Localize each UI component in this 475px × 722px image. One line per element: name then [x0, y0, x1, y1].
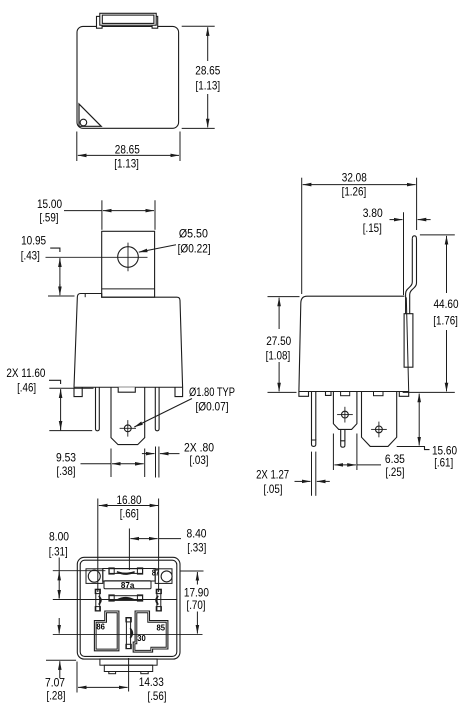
side view: rear coil pin below blade: [341, 429, 345, 447]
svg-text:[.56]: [.56]: [148, 689, 167, 703]
bottom view: slot 87: [109, 569, 142, 574]
dim 17.90: 30-centerline extension: [53, 634, 203, 636]
dim 8.40: dimension line with arrows: [130, 538, 157, 540]
dim 14.33: text2: [148, 689, 167, 703]
dim 15.60: text2: [434, 456, 453, 470]
dim 3.80: extension line: [403, 212, 405, 295]
dim 2X.80: text: [184, 441, 214, 455]
dim 7.07: bottom extension line: [46, 659, 76, 661]
dim 6.35: text: [385, 452, 405, 466]
dim 17.90: top extension line: [180, 570, 204, 572]
dim D5.50: text: [179, 227, 208, 241]
svg-text:[.61]: [.61]: [434, 456, 453, 470]
front view: blade hole circle: [124, 425, 131, 432]
dim 8.00: text: [49, 529, 69, 543]
bottom view: label 85: [157, 623, 166, 633]
svg-text:[.66]: [.66]: [120, 506, 139, 520]
dim 15.60: dimension line with arrows: [418, 394, 420, 446]
svg-text:10.95: 10.95: [21, 233, 46, 247]
bottom view: label 87: [152, 569, 160, 578]
bottom view: label plate 87a: [104, 581, 151, 589]
dim 6.35: right extension line: [356, 434, 358, 471]
dim 15.00: dimension line with arrows: [103, 210, 154, 212]
side view: bottom bump: [326, 392, 332, 396]
dim 14.33: left extension line: [76, 662, 78, 693]
side view: left foot: [299, 392, 309, 397]
dim 9.53: leader: [81, 463, 112, 465]
svg-text:87a: 87a: [121, 580, 135, 590]
side view: coil pin front: [312, 392, 316, 447]
dim 32.08: text: [342, 170, 367, 184]
bottom view: left post pocket: [86, 569, 103, 584]
dim 28.65 bottom: text [1.13]: [114, 156, 139, 170]
side view: mounting bracket strip: [406, 236, 417, 314]
side view: middle blade top notch: [341, 392, 350, 396]
svg-text:27.50: 27.50: [266, 334, 291, 348]
dim 7.07: up arrow: [59, 661, 61, 678]
top view: mounting bracket bar outer: [100, 13, 156, 25]
dim 2X1.27: extension lines: [312, 452, 316, 496]
bottom view: coil slot 85 end squares: [156, 589, 161, 611]
dim 44.60: text2: [433, 314, 458, 328]
dim 28.65 right: text 28.65: [195, 63, 220, 77]
bottom view: coil slot 85 pin lens: [156, 596, 158, 605]
dim 28.65 bottom: left extension line: [76, 132, 78, 162]
svg-text:Ø1.80 TYP: Ø1.80 TYP: [189, 385, 235, 399]
top view: mounting bracket bar inner: [102, 15, 154, 23]
dim 14.33: centerline extension: [128, 658, 130, 692]
dim 8.00: lower arrow: [58, 590, 60, 599]
side view: large blade terminal 30/87: [362, 392, 397, 447]
svg-text:9.53: 9.53: [56, 451, 76, 465]
dim 2X11.60: text: [6, 366, 45, 380]
svg-text:8.00: 8.00: [49, 529, 69, 543]
front view: tab hole horizontal centerline / 10.95 leader: [46, 256, 148, 258]
bottom view: bracket bottom wide bar: [100, 659, 157, 665]
dim 10.95: hook: [50, 248, 60, 252]
side view: bracket lower plate: [404, 314, 413, 368]
svg-text:[.38]: [.38]: [57, 464, 76, 478]
dim 9.53: right extension line: [144, 449, 146, 478]
dim 3.80: left arrow: [390, 219, 403, 221]
dim 16.80: dimension line with arrows: [99, 505, 159, 507]
dim 10.95: dimension line: [59, 258, 61, 291]
side view: right foot: [399, 392, 408, 397]
bottom view: bracket bottom narrow bar: [104, 665, 152, 671]
dim 7.07: text: [45, 675, 65, 689]
svg-text:[Ø0.07]: [Ø0.07]: [196, 399, 229, 413]
dim 10.95: text [.43]: [21, 248, 40, 262]
svg-text:3.80: 3.80: [363, 206, 383, 220]
dim 2X1.27: text2: [264, 482, 283, 496]
bottom view: top recess: [103, 569, 155, 582]
side view: large blade hole: [376, 426, 383, 433]
dim 15.00: text [.59]: [40, 210, 59, 224]
dim 15.00: left extension line: [101, 200, 103, 230]
svg-text:[.59]: [.59]: [40, 210, 59, 224]
front view: relay body outline: [74, 294, 183, 388]
dim 8.00: text2: [49, 544, 68, 558]
dim 8.00: coil centerline extension: [53, 599, 177, 601]
dim 6.35: dimension line with arrows: [334, 464, 356, 466]
bottom view: slot 30 pin lens: [130, 628, 132, 638]
dim 8.00: upper arrow: [58, 572, 60, 579]
bottom view: pocket 86 inner: [96, 613, 117, 649]
dim 16.80: left extension line: [97, 499, 99, 593]
dim 16.80: text: [117, 493, 142, 507]
dim 9.53: text 9.53: [56, 451, 76, 465]
dim 32.08: left extension line: [301, 178, 303, 294]
dim 14.33: dimension line with arrows: [78, 686, 128, 688]
dim 28.65 bottom: dimension line with arrows: [78, 154, 179, 156]
dim 2X1.27: text: [256, 467, 289, 481]
svg-text:[.25]: [.25]: [386, 465, 405, 479]
svg-text:86: 86: [96, 622, 105, 632]
svg-text:28.65: 28.65: [195, 63, 220, 77]
svg-text:44.60: 44.60: [434, 297, 459, 311]
dim 8.00: line: [58, 558, 60, 599]
svg-text:85: 85: [157, 623, 166, 633]
svg-text:6.35: 6.35: [385, 452, 405, 466]
bottom view: pocket 86 outer: [94, 611, 119, 651]
bottom view: right post pocket: [155, 569, 172, 584]
front view: mounting tab: [102, 231, 155, 297]
front view: tab hole circle: [118, 247, 139, 268]
dim 44.60: dimension line upper with arrow: [446, 236, 448, 293]
dim 3.80: text2: [363, 221, 382, 235]
side view: body bottom edge: [299, 391, 409, 393]
bottom view: coil slot 85: [157, 590, 161, 611]
dim 27.50: bottom extension line: [268, 391, 297, 393]
svg-text:14.33: 14.33: [139, 675, 164, 689]
dim 2X11.60: top extension line: [49, 387, 93, 389]
bottom view: slot 30: [126, 618, 130, 649]
dim 9.53: left extension line: [110, 449, 112, 478]
dim 2X1.27: left arrow: [295, 480, 311, 482]
dim D5.50: leader arrow: [139, 245, 176, 252]
dim 2X.80: text2: [190, 453, 209, 467]
top view: relay body outline: [77, 26, 179, 128]
dim 10.95: dimension line lower arrow: [59, 284, 61, 295]
dim 2X11.60: line: [60, 389, 62, 430]
dim 27.50: text: [266, 334, 291, 348]
svg-text:[.31]: [.31]: [49, 544, 68, 558]
front view: center blade terminal 30: [111, 387, 145, 444]
bottom view: outer body outline: [77, 557, 180, 659]
dim 10.95: dimension line upper arrow: [59, 258, 61, 263]
svg-text:[Ø0.22]: [Ø0.22]: [178, 242, 211, 256]
bottom view: slot 87a end squares: [109, 595, 143, 601]
bottom view: slot 87a: [109, 596, 142, 601]
dim 15.00: right extension line: [154, 200, 156, 230]
dim 8.40: leader: [159, 538, 181, 540]
dim 28.65 right: top extension line: [182, 25, 215, 27]
bottom view: slot 87 pin lens: [117, 572, 135, 574]
dim 32.08: text2: [342, 185, 367, 199]
side view: large blade hole crosshair: [371, 422, 387, 438]
svg-text:[.15]: [.15]: [363, 221, 382, 235]
bottom view: coil slot 86: [96, 590, 100, 611]
dim 2X.80: left arrow: [142, 453, 155, 455]
dim 8.40: text2: [187, 541, 206, 555]
svg-text:Ø5.50: Ø5.50: [179, 227, 208, 241]
dim 27.50: dimension line upper with arrow: [278, 298, 280, 329]
front view: coil pin left: [96, 387, 100, 431]
svg-text:[.33]: [.33]: [187, 541, 206, 555]
dim 7.07: text2: [47, 689, 66, 703]
bottom view: label 30: [137, 633, 146, 643]
svg-text:[1.76]: [1.76]: [433, 314, 458, 328]
dim 17.90: dimension line upper with arrow: [196, 572, 198, 585]
dim 10.95: text 10.95: [21, 233, 46, 247]
dim 2X11.60: upper arrow: [60, 389, 62, 398]
dim 14.33: text: [139, 675, 164, 689]
bottom view: label 87a: [121, 580, 135, 590]
top view: mounting bracket left leg: [97, 16, 103, 28]
dim 2X1.27: right arrow: [317, 480, 330, 482]
dim 27.50: text2: [266, 348, 291, 362]
dim 32.08: dimension line with arrows: [303, 184, 416, 186]
top view: corner index triangle: [79, 104, 101, 126]
bottom view: bracket feet: [109, 672, 148, 674]
dim 6.35: left extension line: [332, 434, 334, 471]
bottom view: slot 87a pin lens: [117, 598, 135, 600]
front view: tab hole vertical centerline: [127, 243, 129, 272]
dim 2X11.60: bottom extension line: [49, 430, 92, 432]
front view: coil pin right: [155, 387, 159, 431]
svg-text:[.03]: [.03]: [190, 453, 209, 467]
dim 27.50: top extension line: [268, 296, 300, 298]
bottom view: left post circle: [88, 570, 100, 582]
bottom view: slot 30 end squares: [126, 618, 131, 649]
svg-text:[1.13]: [1.13]: [196, 78, 221, 92]
dim 3.80: right arrow: [418, 219, 431, 221]
dim 16.80: right extension line: [158, 499, 160, 593]
dim 9.53: dimension line with arrows: [112, 463, 144, 465]
dim 6.35: leader: [357, 464, 381, 466]
dim 44.60: text: [434, 297, 459, 311]
svg-text:2X 1.27: 2X 1.27: [256, 467, 289, 481]
dim 8.00: top extension line: [53, 570, 106, 572]
dim 32.08: right extension line: [416, 178, 418, 230]
dim 28.65 right: dimension line lower with arrow: [207, 94, 209, 127]
dim 8.40: centerline extension: [128, 529, 130, 571]
svg-text:32.08: 32.08: [342, 170, 367, 184]
dim 8.40: text: [187, 527, 207, 541]
svg-text:[1.26]: [1.26]: [342, 185, 367, 199]
svg-text:[.70]: [.70]: [187, 598, 206, 612]
dim 28.65 bottom: right extension line: [179, 132, 181, 162]
front view: right foot: [175, 387, 183, 396]
dim 7.07: down arrow: [58, 618, 60, 634]
side view: middle blade hole: [342, 411, 349, 418]
side view: middle blade hole crosshair: [337, 407, 353, 423]
dim 44.60: bottom extension line: [403, 391, 455, 393]
front view: left foot: [74, 387, 82, 396]
dim 3.80: text: [363, 206, 383, 220]
dim 44.60: top extension line: [420, 234, 455, 236]
dim 2X11.60: text2: [17, 381, 36, 395]
side view: body top/left outline: [299, 296, 405, 391]
dim 17.90: text2: [187, 598, 206, 612]
dim 28.65 right: text [1.13]: [196, 78, 221, 92]
dim D1.80: leader arrow: [134, 399, 192, 428]
svg-text:[.43]: [.43]: [21, 248, 40, 262]
dim 28.65 right: dimension line upper with arrow: [207, 27, 209, 61]
dim D1.80: text2: [196, 399, 229, 413]
svg-text:16.80: 16.80: [117, 493, 142, 507]
dim 16.80: text2: [120, 506, 139, 520]
bottom view: pocket 85 inner: [135, 613, 166, 651]
dim 2X.80: right arrow: [160, 453, 180, 455]
dim 15.00: text 15.00: [37, 197, 62, 211]
svg-text:[1.08]: [1.08]: [266, 348, 291, 362]
dim 17.90: dimension line lower with arrow: [196, 612, 198, 634]
side view: large blade top notch: [374, 392, 384, 396]
dim 28.65 right: bottom extension line: [182, 127, 215, 129]
front view: mounting tab base line: [102, 288, 155, 290]
svg-text:[.05]: [.05]: [264, 482, 283, 496]
dim 9.53: text [.38]: [57, 464, 76, 478]
dim 17.90: text: [184, 585, 209, 599]
dim 6.35: text2: [386, 465, 405, 479]
svg-text:[.28]: [.28]: [47, 689, 66, 703]
bottom view: right post circle: [161, 571, 172, 582]
svg-text:28.65: 28.65: [115, 142, 140, 156]
front view: blade hole crosshair: [120, 420, 136, 437]
bottom view: pocket 85 outer: [133, 611, 168, 652]
svg-text:[1.13]: [1.13]: [114, 156, 139, 170]
bottom view: inner body outline: [80, 560, 177, 656]
dim 15.60: text: [432, 443, 457, 457]
dim 2X11.60: lower arrow: [60, 421, 62, 430]
bottom view: label 86: [96, 622, 105, 632]
dim 2X.80: pin edge extension lines: [156, 447, 159, 478]
svg-text:15.00: 15.00: [37, 197, 62, 211]
front view: center bump on blade: [118, 387, 135, 392]
bottom view: slot 87 end squares: [109, 568, 143, 574]
bottom view: coil slot 86 pin lens: [99, 596, 101, 605]
dim 15.60: bottom extension/hook: [397, 447, 430, 450]
dim 10.95: bottom extension line: [48, 295, 75, 297]
svg-text:8.40: 8.40: [187, 527, 207, 541]
front view: body ledge tick: [84, 294, 86, 298]
dim 27.50: dimension line lower with arrow: [278, 362, 280, 391]
dim 28.65 bottom: text 28.65: [115, 142, 140, 156]
svg-text:2X 11.60: 2X 11.60: [6, 366, 45, 380]
dim 2X11.60: hook: [49, 380, 61, 384]
side view: middle blade terminal: [333, 392, 357, 430]
dim D1.80: text: [189, 385, 235, 399]
svg-text:7.07: 7.07: [45, 675, 65, 689]
dim 15.00: leader line: [64, 210, 102, 212]
bottom view: coil slot 86 end squares: [95, 589, 100, 611]
svg-text:[.46]: [.46]: [17, 381, 36, 395]
dim 44.60: dimension line lower with arrow: [446, 330, 448, 391]
dim D5.50: text2: [178, 242, 211, 256]
top view: corner pilot circle: [80, 119, 87, 126]
side view: body right edge: [406, 297, 408, 391]
top view: mounting bracket right leg: [152, 16, 158, 28]
